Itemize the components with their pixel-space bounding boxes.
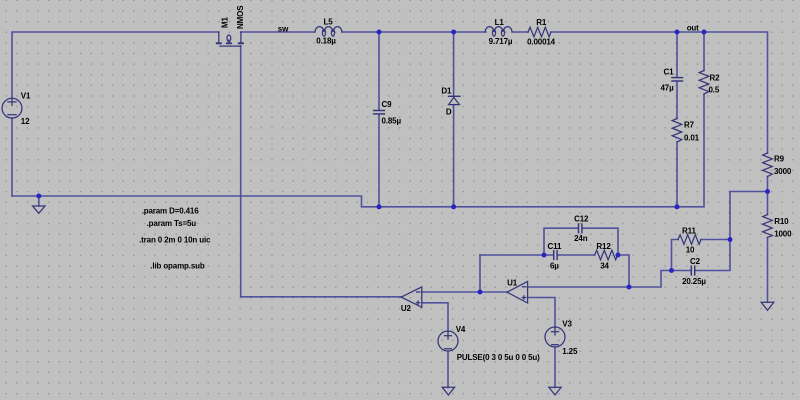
svg-text:M1: M1 <box>221 16 230 28</box>
svg-text:.lib opamp.sub: .lib opamp.sub <box>150 261 205 270</box>
svg-text:NMOS: NMOS <box>236 5 245 29</box>
svg-text:R9: R9 <box>774 154 785 163</box>
svg-text:1000: 1000 <box>774 229 792 238</box>
wire C1 top <box>676 32 678 77</box>
wire U1 inverting input <box>528 286 629 288</box>
svg-text:47µ: 47µ <box>661 83 675 92</box>
wire compensation net left <box>480 254 553 256</box>
svg-text:U1: U1 <box>507 279 518 288</box>
ground at V3 <box>549 387 561 395</box>
op-amp U2 <box>401 287 422 307</box>
resistor R10 <box>763 215 773 238</box>
junction R12-C12 right <box>616 253 621 258</box>
junction bus C1 <box>675 204 680 209</box>
svg-text:0.85µ: 0.85µ <box>382 117 402 126</box>
svg-text:L5: L5 <box>324 17 334 26</box>
svg-text:L1: L1 <box>495 18 505 27</box>
wire R1 to top-right corner down to R9 <box>551 32 768 153</box>
capacitor C12 <box>579 223 582 233</box>
diode D1 <box>448 96 461 104</box>
svg-text:PULSE(0 3 0 5u 0 0 5u): PULSE(0 3 0 5u 0 0 5u) <box>457 353 540 362</box>
svg-text:V4: V4 <box>456 325 466 334</box>
junction top D1 <box>451 30 456 35</box>
wire V1 bottom to ground bus <box>11 118 13 196</box>
resistor R2 <box>699 71 709 95</box>
capacitor C9 <box>373 111 385 114</box>
wire U2 noninverting input to V4 <box>422 303 448 331</box>
voltage source V4 <box>438 331 458 351</box>
svg-text:0.01: 0.01 <box>684 133 700 142</box>
wire C11 to R12 <box>558 254 595 256</box>
svg-text:R12: R12 <box>596 242 611 251</box>
junction R11 right <box>728 237 733 242</box>
wire R12 C12 right junction down <box>617 255 629 287</box>
wire L1 to R1 <box>512 31 528 33</box>
svg-text:0.5: 0.5 <box>709 85 720 94</box>
wire R11 right <box>701 239 730 241</box>
resistor R11 <box>678 235 701 245</box>
wire C12 left riser and top <box>544 228 578 255</box>
svg-text:R11: R11 <box>682 226 696 235</box>
svg-text:34: 34 <box>600 262 609 271</box>
junction sw-C9 <box>377 30 382 35</box>
ground at R10 <box>761 302 774 310</box>
capacitor C2 <box>691 265 694 275</box>
wire U2 output to M1 gate <box>241 46 402 297</box>
junction U1 output <box>478 290 483 295</box>
svg-text:1.25: 1.25 <box>562 347 578 356</box>
wire D1 bottom <box>453 105 455 207</box>
wire U1 noninverting input to V3 <box>528 298 555 328</box>
junction C2 left <box>669 268 674 273</box>
junction bus D1 <box>451 204 456 209</box>
junction top R2 <box>702 30 707 35</box>
svg-text:D: D <box>446 108 452 117</box>
svg-text:out: out <box>687 24 699 33</box>
wire C2 left <box>672 270 691 272</box>
wire R10 to ground <box>767 238 769 303</box>
svg-text:20.25µ: 20.25µ <box>682 277 706 286</box>
svg-text:D1: D1 <box>441 87 452 96</box>
svg-text:C11: C11 <box>548 242 562 251</box>
svg-text:C9: C9 <box>382 100 393 109</box>
svg-text:24n: 24n <box>574 234 588 243</box>
wire R9 to R10 <box>767 177 769 215</box>
wire R7 bottom <box>676 142 678 207</box>
resistor R9 <box>763 153 773 177</box>
ground at V4 <box>442 387 454 395</box>
svg-text:.tran 0 2m 0 10n uic: .tran 0 2m 0 10n uic <box>139 236 211 245</box>
svg-text:9.717µ: 9.717µ <box>489 37 513 46</box>
wire C12 right side <box>583 228 618 255</box>
svg-text:C2: C2 <box>690 257 701 266</box>
svg-text:10: 10 <box>686 245 695 254</box>
op-amp U1 <box>507 281 528 303</box>
wire comp net down to U1 output <box>479 255 481 292</box>
svg-text:C12: C12 <box>574 215 589 224</box>
junction U1 minus net <box>627 285 632 290</box>
svg-text:V1: V1 <box>21 92 31 101</box>
wire L5 to L1 <box>342 31 486 33</box>
svg-text:3000: 3000 <box>774 167 792 176</box>
wire C9 top <box>378 32 380 110</box>
svg-text:C1: C1 <box>664 67 675 76</box>
junction at ground tap <box>36 194 41 199</box>
svg-text:R1: R1 <box>536 18 547 27</box>
junction out node <box>675 30 680 35</box>
inductor L1 <box>485 27 512 37</box>
svg-text:R7: R7 <box>684 120 695 129</box>
resistor R7 <box>672 119 682 143</box>
svg-text:.param D=0.416: .param D=0.416 <box>142 206 200 215</box>
ground at V1 bus <box>33 196 45 213</box>
voltage source V3 <box>545 327 565 347</box>
svg-text:12: 12 <box>21 117 30 126</box>
wire ground bus with jog and R2 bottom riser <box>12 94 704 207</box>
inductor L5 <box>315 27 342 37</box>
svg-text:6µ: 6µ <box>550 262 559 271</box>
resistor R12 <box>595 250 618 260</box>
svg-text:.param Ts=5u: .param Ts=5u <box>147 219 197 228</box>
junction C11-C12 left <box>542 253 547 258</box>
voltage source V1 <box>2 98 22 118</box>
svg-text:R2: R2 <box>710 73 721 82</box>
capacitor C11 <box>554 250 557 260</box>
wire U1 output to U2 input <box>422 291 507 293</box>
wire R2 top <box>703 32 705 71</box>
svg-text:0.00014: 0.00014 <box>527 38 556 47</box>
wire D1 top <box>453 32 455 96</box>
svg-text:V3: V3 <box>562 320 572 329</box>
wire C1 to R7 <box>676 82 678 119</box>
wire top-left from V1 to M1 drain <box>12 32 219 98</box>
svg-text:sw: sw <box>278 24 289 33</box>
wire feedback tap from R9-R10 node to C2 right <box>696 192 768 271</box>
junction R9-R10 tap <box>765 189 770 194</box>
wire from RC node down to U1 minus line <box>629 271 672 288</box>
junction bus C9 <box>377 204 382 209</box>
wire V3 to ground <box>554 347 556 388</box>
svg-text:0.18µ: 0.18µ <box>316 37 336 46</box>
resistor R1 <box>528 27 551 37</box>
svg-text:R10: R10 <box>774 217 789 226</box>
wire C9 bottom <box>378 115 380 207</box>
capacitor C1 <box>671 78 683 81</box>
wire R11 left riser <box>672 240 679 271</box>
wire sw node M1 source to L5 <box>241 31 315 33</box>
transistor M1 <box>216 32 244 46</box>
svg-text:U2: U2 <box>401 304 412 313</box>
wire V4 to ground <box>447 351 449 388</box>
